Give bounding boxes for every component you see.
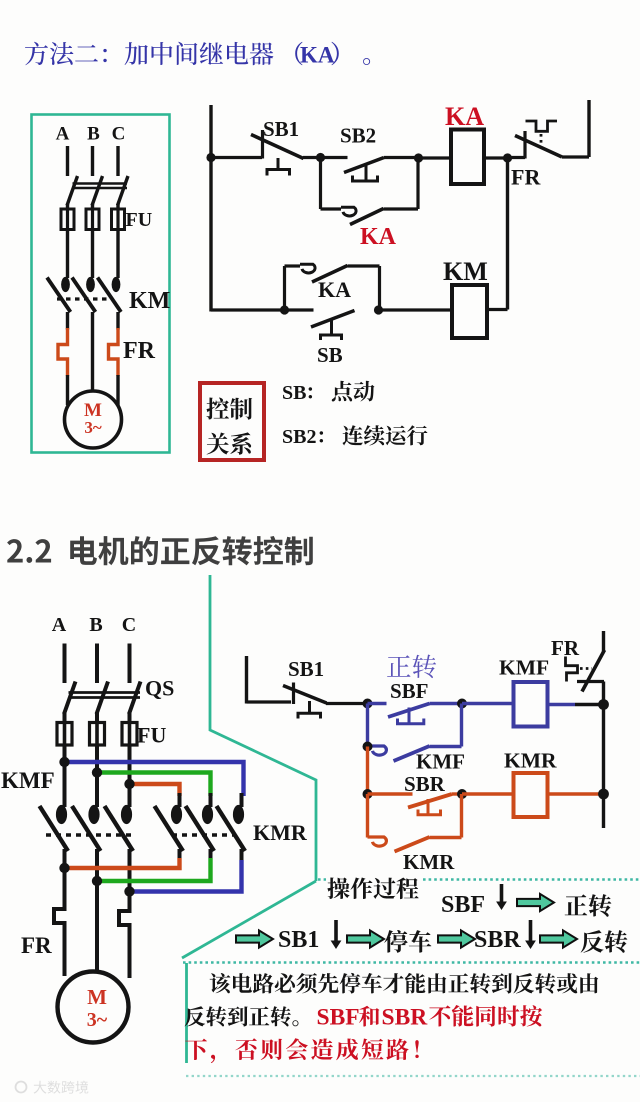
node A-top — [59, 757, 69, 767]
contactor coil KM — [452, 285, 487, 338]
wire coil to node — [484, 156, 508, 159]
wire KMF coil to rail — [548, 703, 576, 706]
node E — [374, 305, 383, 314]
seal-in contact KA — [319, 158, 322, 210]
legend frame — [200, 383, 264, 460]
KM linkage dotted — [57, 297, 108, 300]
svg-text:SBF: SBF — [390, 679, 429, 703]
wire node J to KMR coil — [462, 792, 513, 795]
svg-text:KMF: KMF — [1, 768, 55, 793]
isolator linkage bars — [73, 182, 128, 184]
fuse FU pole B — [86, 209, 99, 230]
wires to motor 2 — [63, 926, 67, 976]
run button SB2 — [321, 156, 348, 159]
thermal contact FR 2 — [566, 657, 578, 682]
stop button SB1 — [261, 130, 264, 159]
svg-text:FR: FR — [511, 165, 541, 190]
svg-text:SB2: SB2 — [340, 124, 376, 148]
node B-top — [92, 767, 102, 777]
warning box dotted bottom — [186, 1075, 640, 1077]
switch QS blades — [64, 682, 76, 715]
node F — [363, 699, 373, 709]
red bus lower (KMR1 to A) — [65, 858, 180, 868]
svg-text:3~: 3~ — [84, 418, 102, 437]
green bus lower (KMR2 to B) — [97, 858, 211, 881]
jog button SB — [285, 308, 314, 311]
svg-text:SBR: SBR — [382, 1005, 429, 1031]
svg-text:KA: KA — [300, 43, 335, 68]
down arrow 3 — [529, 920, 533, 942]
svg-text:A: A — [52, 614, 67, 636]
node C-top — [124, 779, 134, 789]
forward button SBF — [368, 702, 387, 705]
wire node G to KMF coil — [462, 702, 513, 705]
node L — [598, 789, 609, 800]
svg-text:KMR: KMR — [504, 749, 557, 773]
fuse FU pole C — [112, 209, 125, 230]
thermal heater FR pole C — [109, 328, 119, 376]
svg-text:FR: FR — [123, 338, 156, 364]
warning line 2 — [185, 1006, 299, 1026]
wire rail to SB1 — [247, 700, 292, 703]
node H — [363, 742, 373, 752]
wire SB1 to node F — [326, 702, 368, 705]
motor M 3~ — [65, 391, 122, 448]
svg-text:KMF: KMF — [499, 656, 549, 680]
svg-text:SB1: SB1 — [278, 927, 319, 953]
svg-text:KA: KA — [318, 277, 351, 302]
svg-text:KMR: KMR — [403, 850, 455, 874]
svg-text:FR: FR — [21, 933, 52, 958]
node G — [457, 699, 467, 709]
left rail — [209, 105, 212, 312]
node B-bot — [92, 876, 102, 886]
blue bus upper (A to KMR3) — [65, 762, 244, 796]
phase supply wires — [66, 146, 69, 176]
watermark — [16, 1082, 27, 1093]
svg-text:SB1: SB1 — [263, 117, 299, 141]
label forward blue — [387, 655, 436, 679]
contactor KMR contacts — [171, 805, 182, 824]
callout outline left — [210, 575, 316, 881]
label operation process — [327, 878, 418, 900]
label forward seq — [565, 894, 612, 917]
svg-text:C: C — [122, 614, 136, 636]
KMF lower wires — [63, 849, 67, 908]
KMR lower stubs — [178, 849, 182, 860]
bottom rung wire — [211, 308, 285, 311]
hold contact KMR — [366, 794, 369, 838]
blue bus lower (KMR3 to C) — [130, 860, 242, 892]
thermal heater FR pole A — [58, 328, 68, 376]
motor M2 3~ — [58, 972, 129, 1043]
svg-text:SBF: SBF — [441, 892, 485, 918]
node C-bot — [124, 886, 134, 896]
block arrow 2 — [236, 930, 273, 947]
node A — [316, 153, 325, 162]
svg-text:KA: KA — [445, 102, 484, 131]
legend text control relation — [206, 398, 252, 420]
KMF linkage dotted — [46, 833, 134, 837]
svg-text:KMF: KMF — [416, 750, 465, 774]
svg-text:FU: FU — [126, 209, 153, 231]
callout diagonal to warning box — [182, 881, 316, 958]
svg-text:QS: QS — [145, 676, 174, 701]
svg-text:3~: 3~ — [87, 1009, 108, 1031]
hold contact KMF — [366, 704, 369, 747]
svg-text:KA: KA — [360, 224, 397, 250]
thermal heater FR2 pole A — [54, 906, 65, 927]
isolator switch blades — [67, 176, 78, 206]
fuse FU2 pole A — [57, 723, 72, 746]
relay coil KMF — [514, 682, 548, 727]
warning line 3 — [185, 1038, 419, 1063]
relay coil KMR — [514, 773, 548, 817]
svg-text:M: M — [87, 985, 107, 1009]
KMR stubs — [178, 793, 182, 807]
QS linkage bars — [69, 691, 141, 694]
green bus upper (B to KMR2) — [97, 773, 211, 797]
rail segment down — [506, 158, 509, 310]
svg-text:SB1: SB1 — [288, 657, 324, 681]
fuse FU pole A — [61, 209, 74, 230]
relay coil KA — [451, 130, 484, 185]
wires QS to fuses — [63, 712, 67, 723]
wire KM coil to rail — [487, 308, 508, 311]
left rail 2 — [245, 656, 248, 704]
section title 2.2 — [7, 536, 313, 565]
svg-text:SBF: SBF — [317, 1005, 360, 1031]
svg-text:KMR: KMR — [253, 820, 308, 845]
down arrow 1 — [500, 884, 504, 903]
callout dotted operation row — [318, 878, 326, 881]
wires fuses to KM — [66, 230, 69, 279]
wire node H down orange — [366, 747, 369, 795]
label reverse seq — [581, 930, 628, 953]
thermal contact FR — [508, 156, 526, 159]
contactor KM main contacts — [61, 277, 70, 292]
stop button SB1-2 — [292, 683, 295, 705]
phase wires 2 — [63, 644, 67, 684]
svg-text:SBR: SBR — [474, 927, 521, 953]
svg-text:C: C — [112, 124, 126, 145]
wires switch to fuses — [66, 204, 69, 210]
wire SB1 to node — [303, 156, 321, 159]
wire to coil — [419, 156, 452, 159]
block arrow 5 — [540, 930, 577, 947]
thermal heater FR2 pole C — [119, 908, 130, 929]
node B — [414, 153, 423, 162]
node L1 — [206, 153, 215, 162]
wires KM to FR — [66, 312, 69, 330]
node A-bot — [59, 863, 69, 873]
svg-text:FU: FU — [137, 723, 166, 748]
svg-text:SB: SB — [317, 343, 343, 367]
KMR linkage dotted — [172, 833, 236, 837]
warning box dotted top — [183, 961, 640, 964]
svg-text:A: A — [56, 124, 70, 145]
node J — [457, 789, 467, 799]
svg-text:SB: SB — [282, 382, 306, 404]
right rail 2 — [602, 631, 605, 652]
contactor KMF contacts — [56, 805, 67, 824]
node K — [598, 699, 609, 710]
fuse FU2 pole C — [122, 723, 137, 746]
reverse button SBR — [368, 792, 413, 795]
wire rail to SB1 — [211, 156, 262, 159]
block arrow 3 — [347, 930, 384, 947]
svg-text:FR: FR — [551, 636, 580, 660]
wire KMR coil to rail — [548, 792, 601, 795]
main circuit frame — [32, 115, 170, 453]
wires fuses to KMF — [63, 745, 67, 807]
red bus upper (C to KMR1) — [130, 784, 180, 796]
node I — [363, 789, 373, 799]
hold contact KA black — [283, 266, 286, 310]
node C — [503, 153, 512, 162]
block arrow 1 — [517, 894, 554, 911]
wire to KM coil — [379, 308, 453, 311]
label stop seq — [384, 930, 431, 953]
warning box left edge — [185, 963, 188, 1063]
block arrow 4 — [438, 930, 475, 947]
fuse FU2 pole B — [90, 723, 105, 746]
svg-text:B: B — [89, 614, 102, 636]
right rail — [587, 100, 590, 157]
svg-text:B: B — [87, 124, 100, 145]
warning line 1 — [210, 973, 599, 994]
svg-text:SB2: SB2 — [282, 426, 316, 448]
down arrow 2 — [334, 920, 338, 942]
svg-text:KM: KM — [443, 257, 488, 286]
node D — [280, 305, 289, 314]
title method-2 add relay KA — [25, 42, 273, 65]
svg-text:KM: KM — [129, 288, 170, 314]
wires FR to motor — [66, 375, 69, 405]
